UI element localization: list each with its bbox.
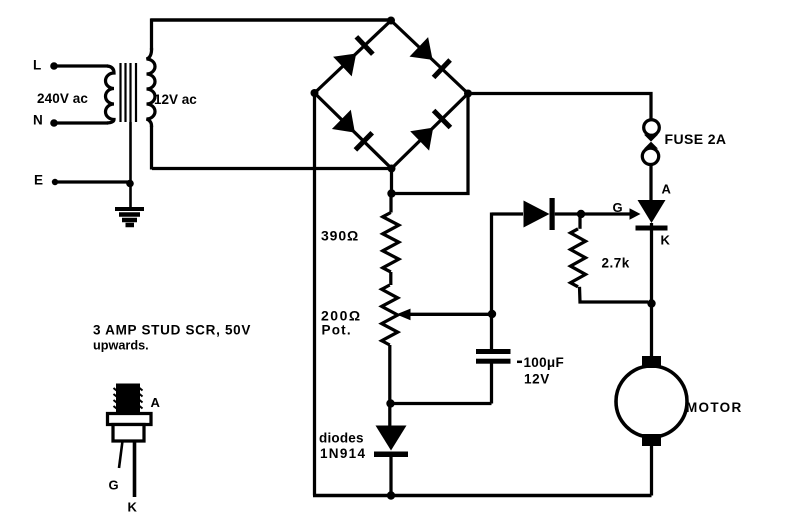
svg-text:A: A <box>662 182 672 197</box>
svg-text:diodes: diodes <box>319 431 364 446</box>
svg-text:E: E <box>34 173 43 188</box>
svg-text:K: K <box>128 500 138 515</box>
svg-text:L: L <box>33 58 41 73</box>
svg-text:FUSE 2A: FUSE 2A <box>665 131 727 147</box>
svg-text:upwards.: upwards. <box>93 339 149 353</box>
svg-text:200Ω: 200Ω <box>321 307 362 323</box>
svg-text:G: G <box>109 478 119 493</box>
svg-text:K: K <box>661 233 671 248</box>
svg-text:100μF: 100μF <box>524 355 565 370</box>
svg-text:A: A <box>151 395 161 410</box>
svg-text:240V ac: 240V ac <box>37 91 88 106</box>
svg-text:2.7k: 2.7k <box>602 255 630 270</box>
svg-text:N: N <box>33 113 43 128</box>
svg-text:12V ac: 12V ac <box>154 92 197 107</box>
svg-text:12V: 12V <box>524 372 550 387</box>
svg-text:390Ω: 390Ω <box>321 227 359 243</box>
svg-text:MOTOR: MOTOR <box>686 400 743 415</box>
svg-text:1N914: 1N914 <box>320 446 366 461</box>
svg-text:Pot.: Pot. <box>322 322 352 337</box>
svg-text:3 AMP STUD SCR, 50V: 3 AMP STUD SCR, 50V <box>93 323 251 338</box>
